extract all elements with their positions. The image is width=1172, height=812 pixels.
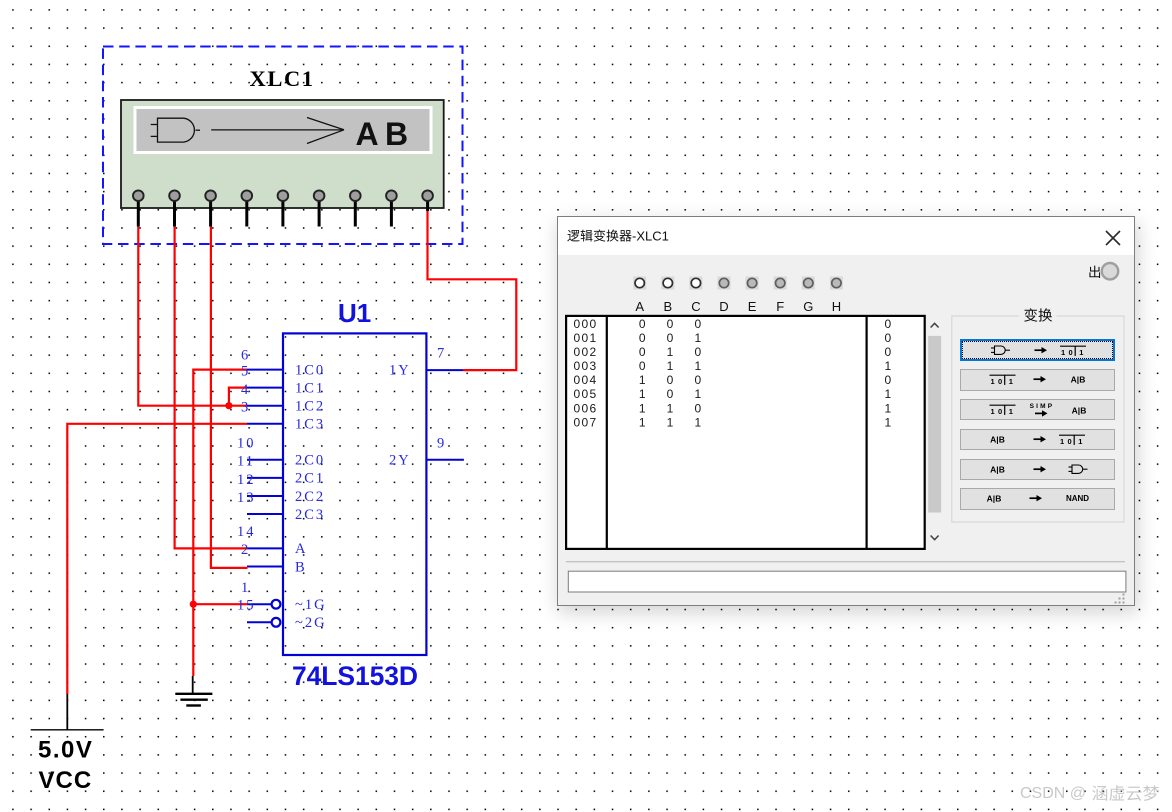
svg-text:0: 0: [695, 401, 702, 415]
svg-text:NAND: NAND: [1066, 494, 1089, 503]
svg-text:1: 1: [639, 373, 646, 387]
svg-text:0: 0: [639, 359, 646, 373]
svg-text:1: 1: [885, 359, 892, 373]
svg-text:005: 005: [574, 387, 598, 401]
svg-text:1: 1: [885, 415, 892, 429]
svg-text:A: A: [356, 116, 379, 152]
svg-text:10: 10: [237, 436, 256, 452]
svg-text:U1: U1: [338, 298, 371, 328]
svg-text:0: 0: [667, 331, 674, 345]
svg-text:0: 0: [639, 331, 646, 345]
svg-text:1: 1: [991, 377, 995, 386]
svg-text:A: A: [295, 541, 307, 557]
svg-text:A|B: A|B: [987, 494, 1002, 504]
svg-text:XLC1: XLC1: [250, 66, 315, 91]
svg-text:0: 0: [1068, 437, 1072, 446]
svg-text:1C1: 1C1: [295, 380, 325, 396]
svg-text:~2G: ~2G: [295, 615, 327, 631]
svg-text:-XLC1: -XLC1: [632, 229, 669, 244]
svg-text:1: 1: [639, 415, 646, 429]
svg-text:A: A: [635, 299, 644, 314]
svg-text:A|B: A|B: [990, 434, 1005, 444]
svg-text:2C2: 2C2: [295, 489, 325, 505]
svg-text:1: 1: [1009, 377, 1013, 386]
svg-text:1: 1: [667, 359, 674, 373]
svg-text:74LS153D: 74LS153D: [292, 661, 418, 691]
svg-text:3: 3: [241, 400, 250, 416]
svg-text:001: 001: [574, 331, 598, 345]
svg-text:B: B: [663, 299, 672, 314]
svg-text:1: 1: [1079, 437, 1083, 446]
svg-text:006: 006: [574, 401, 598, 415]
svg-text:0: 0: [639, 317, 646, 331]
svg-text:12: 12: [237, 472, 256, 488]
svg-text:0: 0: [695, 317, 702, 331]
svg-text:E: E: [748, 299, 757, 314]
svg-text:1: 1: [1061, 348, 1065, 357]
svg-text:0: 0: [998, 377, 1002, 386]
svg-text:1C0: 1C0: [295, 362, 325, 378]
svg-text:1: 1: [639, 387, 646, 401]
svg-text:1: 1: [1080, 348, 1084, 357]
svg-text:1Y: 1Y: [389, 362, 411, 378]
svg-text:1: 1: [1009, 407, 1013, 416]
svg-text:F: F: [776, 299, 784, 314]
svg-text:A|B: A|B: [990, 464, 1005, 474]
svg-text:A|B: A|B: [1072, 405, 1087, 415]
svg-text:1: 1: [991, 407, 995, 416]
svg-text:6: 6: [241, 348, 250, 364]
svg-text:0: 0: [1069, 348, 1073, 357]
svg-text:0: 0: [695, 345, 702, 359]
svg-text:0: 0: [885, 317, 892, 331]
svg-text:H: H: [832, 299, 841, 314]
svg-text:C: C: [691, 299, 700, 314]
svg-text:007: 007: [574, 415, 598, 429]
svg-text:2Y: 2Y: [389, 453, 411, 469]
svg-text:003: 003: [574, 359, 598, 373]
svg-text:0: 0: [667, 387, 674, 401]
svg-text:0: 0: [667, 373, 674, 387]
svg-text:A|B: A|B: [1071, 374, 1086, 384]
svg-text:9: 9: [437, 436, 446, 452]
svg-text:SIMP: SIMP: [1030, 403, 1055, 410]
svg-text:VCC: VCC: [39, 767, 93, 794]
svg-text:1: 1: [695, 387, 702, 401]
svg-text:0: 0: [998, 407, 1002, 416]
svg-text:G: G: [803, 299, 813, 314]
svg-text:1: 1: [1060, 437, 1064, 446]
svg-text:0: 0: [885, 331, 892, 345]
svg-text:2C0: 2C0: [295, 453, 325, 469]
svg-text:D: D: [719, 299, 728, 314]
svg-text:004: 004: [574, 373, 598, 387]
svg-text:7: 7: [437, 346, 446, 362]
svg-text:0: 0: [667, 317, 674, 331]
svg-text:CSDN @: CSDN @: [1020, 785, 1086, 802]
svg-text:0: 0: [885, 373, 892, 387]
svg-text:15: 15: [237, 598, 256, 614]
svg-text:1: 1: [667, 415, 674, 429]
svg-text:2: 2: [241, 542, 250, 558]
svg-text:1: 1: [695, 331, 702, 345]
svg-text:0: 0: [885, 345, 892, 359]
svg-text:5: 5: [241, 364, 250, 380]
svg-text:000: 000: [574, 317, 598, 331]
svg-text:2C3: 2C3: [295, 507, 325, 523]
svg-text:1: 1: [885, 387, 892, 401]
svg-text:1C2: 1C2: [295, 399, 325, 415]
svg-text:1: 1: [695, 415, 702, 429]
svg-text:11: 11: [237, 454, 255, 470]
svg-text:1: 1: [639, 401, 646, 415]
svg-text:1: 1: [667, 345, 674, 359]
svg-text:~1G: ~1G: [295, 597, 327, 613]
svg-text:0: 0: [695, 373, 702, 387]
svg-text:1: 1: [241, 580, 250, 596]
svg-text:4: 4: [241, 382, 250, 398]
svg-text:0: 0: [639, 345, 646, 359]
svg-text:B: B: [295, 559, 307, 575]
svg-text:2C1: 2C1: [295, 471, 325, 487]
svg-text:1: 1: [695, 359, 702, 373]
svg-text:5.0V: 5.0V: [38, 737, 93, 764]
svg-text:002: 002: [574, 345, 598, 359]
svg-text:1: 1: [885, 401, 892, 415]
svg-text:1C3: 1C3: [295, 417, 325, 433]
svg-text:1: 1: [667, 401, 674, 415]
svg-text:13: 13: [237, 490, 256, 506]
svg-text:B: B: [385, 116, 408, 152]
svg-text:14: 14: [237, 524, 256, 540]
